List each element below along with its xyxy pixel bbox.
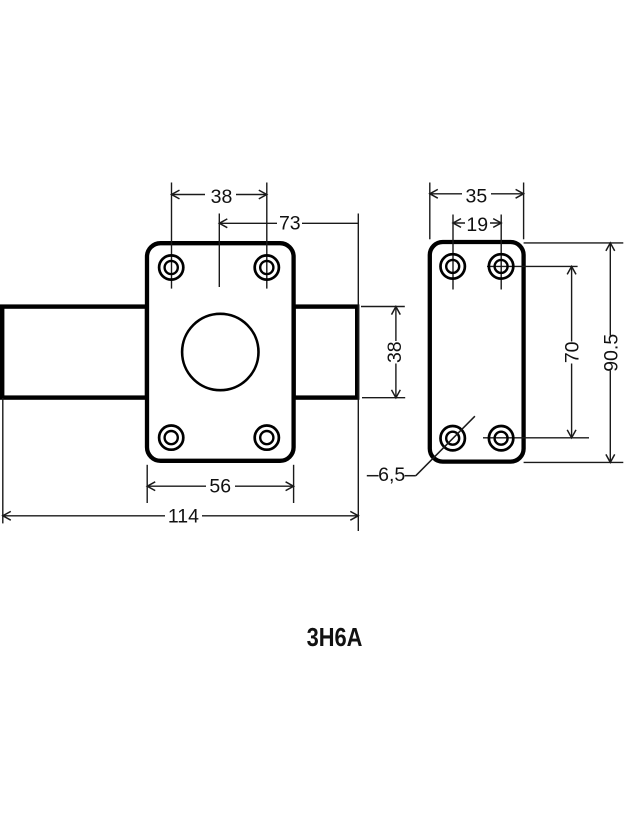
screw hole bottom-left	[159, 426, 183, 450]
svg-text:70: 70	[561, 341, 583, 363]
rear screw hole top-left	[441, 254, 465, 278]
svg-text:19: 19	[466, 214, 488, 236]
extension line 90.5 bottom	[524, 461, 624, 463]
extension line 35 right	[523, 183, 525, 240]
dimension 90.5	[600, 243, 622, 463]
extension line 35 left	[429, 183, 431, 240]
extension line 56 right	[293, 465, 295, 503]
svg-text:35: 35	[466, 185, 488, 207]
svg-text:38: 38	[384, 341, 406, 363]
svg-text:90.5: 90.5	[600, 334, 622, 372]
dimension 38 right vertical	[384, 307, 406, 398]
rear plate body	[430, 242, 524, 462]
dimension 38 top	[172, 186, 267, 208]
dimension 73	[219, 213, 358, 235]
rear screw hole top-right	[489, 254, 513, 278]
extension line 38-right top	[361, 306, 405, 308]
dimension 56	[147, 476, 293, 498]
cylinder hole circle	[182, 314, 258, 390]
rear screw hole bottom-left	[441, 426, 465, 450]
dimension 70	[561, 266, 583, 437]
dimension 114	[3, 506, 359, 528]
extension line 90.5 top	[524, 242, 624, 244]
extension line 19 left	[452, 215, 454, 290]
svg-text:56: 56	[209, 476, 231, 498]
leader 6,5	[367, 416, 475, 486]
left cylinder bar	[2, 307, 147, 398]
extension line 70 bottom	[483, 437, 589, 439]
svg-text:3H6A: 3H6A	[307, 623, 363, 652]
extension line 19 right	[500, 215, 502, 290]
extension line plate centerline	[218, 214, 220, 288]
svg-text:114: 114	[168, 506, 199, 528]
extension line 114 left	[2, 398, 4, 523]
extension line 70 top	[487, 265, 578, 267]
dimension 35	[430, 185, 524, 207]
svg-text:38: 38	[211, 186, 233, 208]
rear screw hole bottom-right	[489, 426, 513, 450]
screw hole bottom-right	[255, 426, 279, 450]
extension line 38 left	[171, 183, 173, 289]
dimension 19	[453, 214, 501, 236]
extension line right end of bar	[357, 214, 359, 532]
extension line 56 left	[146, 465, 148, 503]
extension line 38 right	[266, 183, 268, 289]
model label 3H6A	[307, 623, 363, 652]
right cylinder bar	[294, 307, 358, 398]
svg-text:6,5: 6,5	[378, 464, 405, 486]
svg-text:73: 73	[279, 213, 301, 235]
screw hole top-left	[159, 255, 183, 279]
extension line 38-right bottom	[362, 397, 405, 399]
screw hole top-right	[255, 255, 279, 279]
front plate body	[147, 243, 294, 461]
